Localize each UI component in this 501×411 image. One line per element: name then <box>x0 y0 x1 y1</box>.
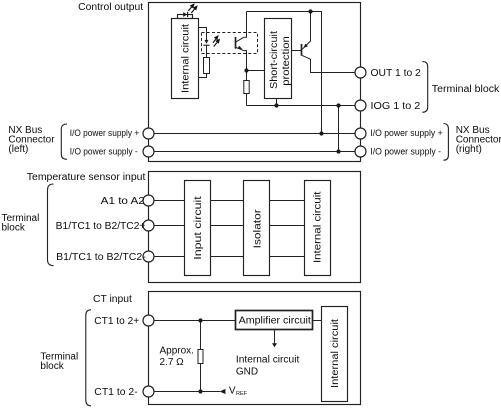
svg-text:Control output: Control output <box>78 2 143 13</box>
svg-text:B1/TC1 to B2/TC2+: B1/TC1 to B2/TC2+ <box>56 221 146 232</box>
svg-text:GND: GND <box>236 367 258 378</box>
svg-text:CT1 to 2-: CT1 to 2- <box>94 387 137 398</box>
svg-text:I/O power supply +: I/O power supply + <box>70 128 139 138</box>
svg-text:Temperature sensor input: Temperature sensor input <box>27 172 146 183</box>
svg-text:block: block <box>2 223 26 234</box>
svg-text:IOG 1 to 2: IOG 1 to 2 <box>371 101 421 112</box>
svg-text:Terminal block: Terminal block <box>432 84 501 95</box>
svg-text:Input circuit: Input circuit <box>193 196 204 260</box>
svg-text:Amplifier circuit: Amplifier circuit <box>239 315 312 326</box>
svg-text:A1 to A2: A1 to A2 <box>101 196 146 207</box>
svg-text:I/O power supply -: I/O power supply - <box>370 146 441 156</box>
svg-text:Short-circuit: Short-circuit <box>269 31 280 89</box>
svg-text:OUT 1 to 2: OUT 1 to 2 <box>371 68 422 79</box>
svg-text:V: V <box>229 385 236 396</box>
svg-text:I/O power supply -: I/O power supply - <box>70 146 138 156</box>
svg-text:Internal circuit: Internal circuit <box>236 355 300 366</box>
svg-text:B1/TC1 to B2/TC2-: B1/TC1 to B2/TC2- <box>56 252 146 263</box>
svg-text:I/O power supply +: I/O power supply + <box>370 128 442 138</box>
svg-text:(left): (left) <box>8 144 28 155</box>
svg-text:CT1 to 2+: CT1 to 2+ <box>94 316 139 327</box>
svg-text:Isolator: Isolator <box>253 209 264 249</box>
svg-text:2.7 Ω: 2.7 Ω <box>160 357 185 368</box>
svg-text:REF: REF <box>236 391 248 397</box>
svg-text:Internal circuit: Internal circuit <box>312 191 323 263</box>
svg-text:protection: protection <box>281 36 292 86</box>
svg-text:(right): (right) <box>456 144 482 155</box>
svg-text:CT input: CT input <box>93 294 132 305</box>
svg-text:Internal circuit: Internal circuit <box>181 24 192 93</box>
svg-text:Approx.: Approx. <box>160 345 194 356</box>
svg-text:Internal circuit: Internal circuit <box>330 319 341 388</box>
svg-text:block: block <box>40 361 64 372</box>
